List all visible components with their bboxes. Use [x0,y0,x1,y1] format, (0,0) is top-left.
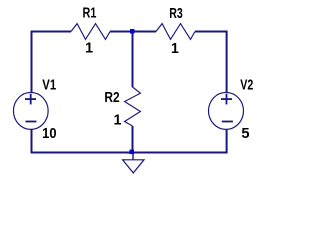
svg-text:V1: V1 [42,76,56,93]
junction node N1 (top) [130,29,135,34]
resistor R1 [71,24,110,40]
svg-text:R3: R3 [169,5,183,21]
voltage source V2 [209,92,244,129]
svg-text:1: 1 [85,41,93,57]
svg-text:1: 1 [171,40,179,56]
wire top-left: left corner to R1 [32,32,72,94]
svg-text:5: 5 [241,126,249,142]
resistor R3 [156,24,195,40]
svg-text:V2: V2 [240,77,253,93]
ground [123,153,144,173]
wire top-right: R3 to right corner down to V2 [195,32,227,94]
svg-text:R2: R2 [104,89,119,105]
resistor R2 [125,87,141,126]
svg-text:10: 10 [42,125,57,141]
svg-text:1: 1 [114,112,122,128]
wire middle: node N1 down to R2 [132,32,134,88]
wire top-mid: R1 to R3 through node N1 [110,31,156,33]
wire middle lower: R2 to bottom node [132,126,134,153]
svg-text:R1: R1 [83,5,97,21]
junction node N2 (bottom) [130,150,135,155]
wire bottom: full bottom rail [32,129,227,153]
voltage source V1 [13,92,48,129]
